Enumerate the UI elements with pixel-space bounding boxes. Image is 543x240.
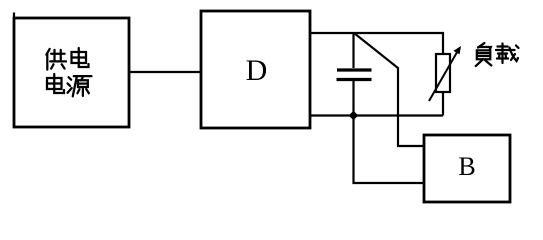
label 载 (496, 44, 519, 64)
wire bottom rail (310, 114, 443, 116)
label 源 (68, 76, 92, 96)
wire diagonal tap to B (354, 33, 424, 146)
box B (424, 135, 510, 202)
label 供 (46, 49, 66, 70)
wire top rail (310, 33, 443, 54)
arrow of variable resistor (429, 51, 458, 102)
resistor load (负载) (442, 92, 444, 116)
svg-text:D: D (246, 54, 268, 87)
box D (201, 11, 310, 128)
svg-text:B: B (458, 152, 475, 181)
wire supply to D (129, 71, 201, 73)
power supply box (供电电源) (14, 18, 129, 127)
label 电 (72, 48, 89, 67)
node junction dot (349, 111, 359, 121)
wire node to B lower input (354, 116, 425, 184)
label 负 (476, 43, 492, 66)
capacitor C (352, 33, 354, 68)
label 电 (line 2) (47, 74, 64, 93)
